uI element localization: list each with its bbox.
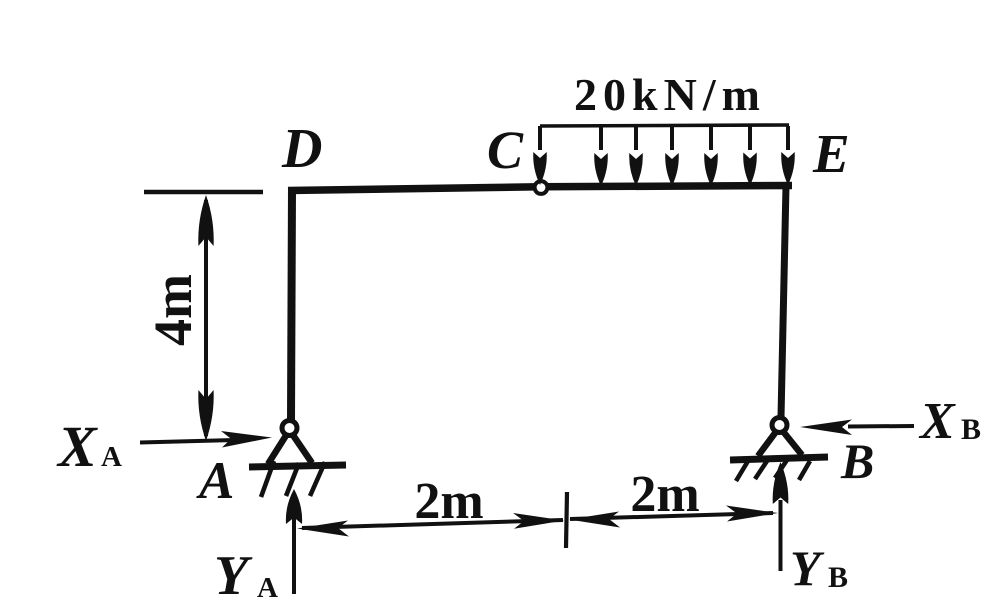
column AD bbox=[291, 188, 292, 420]
load arrow 4 bbox=[665, 126, 679, 186]
dimension 4m top tick bbox=[144, 190, 263, 195]
load arrow 1 bbox=[533, 126, 547, 185]
force arrow XA bbox=[140, 431, 272, 448]
svg-text:Y: Y bbox=[214, 545, 253, 599]
load arrow 5 bbox=[704, 126, 718, 186]
svg-text:D: D bbox=[281, 118, 322, 180]
svg-text:A: A bbox=[257, 572, 278, 599]
pin support B triangle bbox=[730, 427, 828, 460]
svg-text:C: C bbox=[487, 120, 524, 180]
svg-text:B: B bbox=[961, 413, 981, 446]
dimension 4m line bbox=[198, 195, 213, 441]
pin support A triangle bbox=[249, 430, 346, 467]
load arrow 7 bbox=[781, 126, 795, 185]
svg-text:4m: 4m bbox=[143, 274, 203, 346]
svg-text:20kN/m: 20kN/m bbox=[574, 69, 766, 120]
force arrow YA bbox=[286, 489, 302, 594]
svg-text:A: A bbox=[196, 452, 234, 510]
load arrow 6 bbox=[743, 126, 757, 186]
pin A bbox=[282, 421, 297, 436]
svg-text:B: B bbox=[840, 433, 874, 489]
load top line bbox=[540, 125, 789, 126]
svg-text:X: X bbox=[56, 414, 98, 479]
label YA bbox=[214, 545, 278, 599]
pin B bbox=[772, 418, 787, 433]
dimension center tick bbox=[566, 492, 567, 548]
column BE bbox=[781, 186, 786, 417]
beam DE bbox=[288, 186, 792, 191]
force arrow XB bbox=[800, 420, 914, 436]
hinge C bbox=[535, 181, 548, 194]
svg-text:E: E bbox=[812, 123, 850, 184]
label XA bbox=[56, 414, 122, 479]
svg-text:A: A bbox=[101, 441, 122, 473]
svg-text:Y: Y bbox=[790, 540, 825, 596]
hatching A bbox=[261, 461, 325, 497]
label YB bbox=[790, 540, 848, 596]
svg-text:X: X bbox=[918, 393, 956, 450]
svg-text:2m: 2m bbox=[414, 473, 483, 530]
load arrow 2 bbox=[594, 126, 608, 186]
force arrow YB bbox=[773, 462, 789, 571]
label XB bbox=[918, 393, 981, 450]
hatching B bbox=[736, 460, 810, 481]
svg-text:B: B bbox=[828, 561, 848, 594]
load arrow 3 bbox=[629, 126, 643, 186]
svg-text:2m: 2m bbox=[630, 466, 699, 523]
dimension 2m line right bbox=[569, 506, 778, 528]
dimension 2m line left bbox=[297, 513, 564, 537]
